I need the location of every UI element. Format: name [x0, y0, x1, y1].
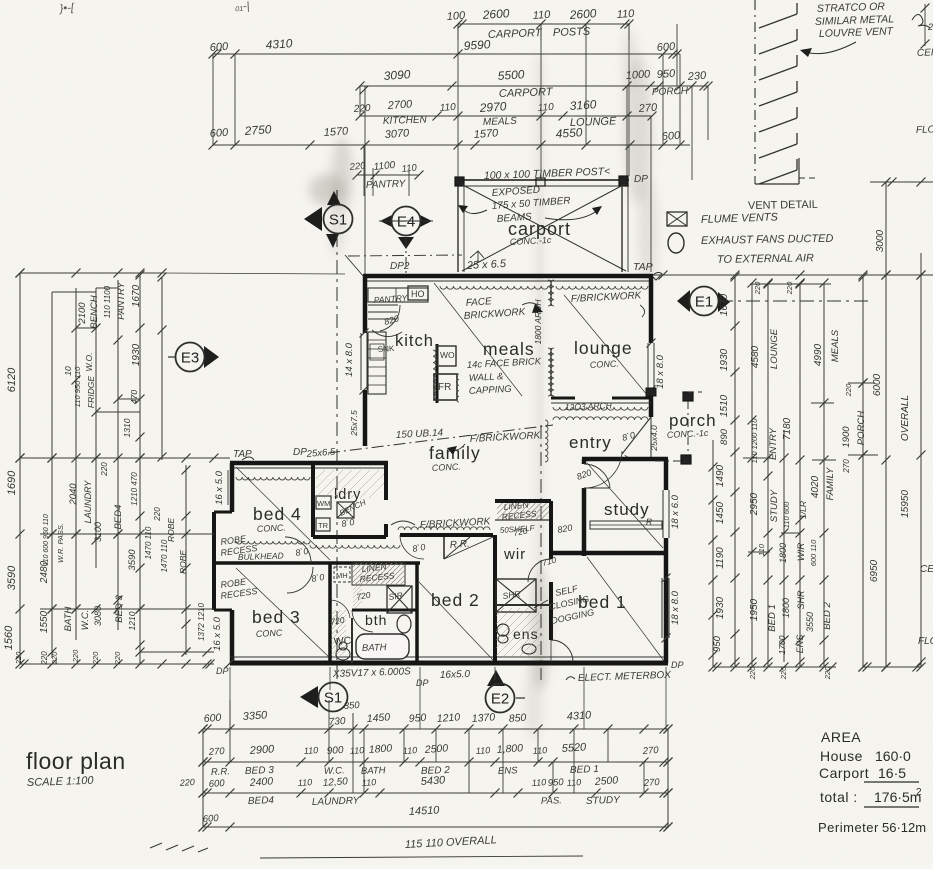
svg-text:950: 950	[547, 777, 564, 789]
wall ldry left	[311, 463, 315, 537]
svg-text:950: 950	[408, 712, 426, 725]
entry door opening right	[650, 417, 652, 459]
svg-text:16x5.0: 16x5.0	[440, 669, 471, 681]
svg-text:2400: 2400	[248, 775, 273, 789]
svg-text:25x4.0: 25x4.0	[649, 425, 659, 452]
wall bed4 ldry top	[230, 461, 388, 466]
svg-text:220: 220	[71, 649, 80, 663]
svg-text:STRATCO OR: STRATCO OR	[817, 1, 886, 15]
svg-text:850: 850	[508, 712, 526, 725]
ldry hatch	[316, 470, 384, 498]
top dim row2 line	[213, 53, 680, 55]
svg-text:family: family	[429, 443, 481, 463]
svg-text:4990: 4990	[813, 343, 824, 366]
top dim row5 line	[213, 144, 690, 146]
wall lounge porch corner	[649, 390, 654, 417]
linen recess bath side	[352, 563, 405, 585]
svg-text:1670: 1670	[131, 284, 142, 307]
svg-text:110: 110	[349, 745, 364, 756]
top dim row3 line	[360, 85, 708, 87]
carport rail right	[621, 186, 623, 272]
svg-text:2750: 2750	[243, 122, 272, 138]
svg-text:7180: 7180	[782, 417, 793, 440]
svg-text:14510: 14510	[409, 804, 441, 818]
wall family bed2 top	[400, 533, 493, 537]
svg-text:ENS: ENS	[795, 635, 805, 654]
right dim verticals	[712, 440, 714, 667]
svg-text:1900: 1900	[841, 426, 852, 448]
svg-text:FAMILY: FAMILY	[825, 467, 836, 500]
svg-text:S1: S1	[329, 212, 347, 229]
svg-text:1310: 1310	[122, 418, 132, 437]
right dim crossbars	[848, 382, 875, 384]
svg-text:4310: 4310	[265, 36, 293, 52]
shr shower bath	[387, 586, 412, 613]
svg-text:110: 110	[532, 745, 547, 756]
right dim top line	[653, 274, 933, 276]
svg-text:3090: 3090	[383, 67, 411, 83]
svg-text:PAS.: PAS.	[541, 795, 562, 807]
svg-text:2600: 2600	[481, 6, 510, 22]
svg-text:bed 2: bed 2	[431, 590, 480, 610]
kitchen top bench	[368, 288, 428, 302]
svg-text:2: 2	[927, 22, 933, 32]
svg-text:CARPORT: CARPORT	[499, 86, 554, 100]
section marker S1 bottom	[300, 686, 318, 708]
svg-text:DP: DP	[293, 447, 307, 458]
svg-text:PANTRY: PANTRY	[116, 282, 127, 320]
svg-text:HO: HO	[411, 289, 425, 299]
svg-text:950: 950	[712, 635, 723, 652]
svg-text:220: 220	[100, 462, 109, 477]
bottom dim line1	[203, 728, 668, 730]
section line E2	[540, 425, 542, 680]
ens toilet	[497, 624, 509, 636]
svg-text:18 x 8.0: 18 x 8.0	[670, 590, 681, 625]
svg-text:TO EXTERNAL AIR: TO EXTERNAL AIR	[717, 252, 814, 266]
kitchen hp box	[408, 286, 428, 300]
svg-text:2900: 2900	[248, 743, 275, 757]
wall study bottom bed1 top	[549, 551, 668, 556]
svg-text:1560: 1560	[3, 625, 15, 650]
svg-text:}•-[: }•-[	[58, 2, 75, 15]
scribble top right	[912, 14, 930, 28]
wir shelf line	[495, 519, 551, 521]
elevation marker E1	[677, 290, 690, 312]
svg-text:AREA: AREA	[821, 729, 861, 745]
wall bulkhead bed4 bed3	[214, 561, 420, 565]
svg-text:6120: 6120	[6, 367, 18, 392]
svg-text:6000: 6000	[872, 373, 883, 396]
svg-text:270: 270	[642, 777, 660, 789]
svg-text:LOUNGE: LOUNGE	[769, 328, 780, 369]
svg-text:110: 110	[475, 745, 490, 756]
wall bath top	[352, 609, 417, 612]
vent detail bottom line	[755, 183, 799, 185]
svg-text:1372 1210: 1372 1210	[197, 603, 206, 641]
kitchen sink	[370, 344, 384, 360]
lounge diagonal	[564, 295, 648, 396]
svg-text:3160: 3160	[569, 97, 597, 113]
svg-text:220: 220	[748, 666, 757, 680]
svg-text:110: 110	[361, 777, 376, 788]
study desk	[590, 521, 662, 529]
svg-text:100: 100	[446, 10, 466, 23]
svg-text:SCALE 1:100: SCALE 1:100	[27, 775, 95, 789]
svg-text:SNK: SNK	[378, 344, 396, 354]
wall bed3 left lower	[230, 610, 235, 665]
svg-text:220: 220	[779, 666, 788, 680]
svg-text:25 x 6.5: 25 x 6.5	[466, 258, 508, 272]
svg-text:DP: DP	[416, 678, 429, 688]
svg-text:5520: 5520	[561, 741, 587, 755]
svg-text:4580: 4580	[750, 345, 761, 368]
bed2 diagonal	[419, 582, 493, 660]
svg-text:FR: FR	[438, 382, 451, 393]
svg-text:1100: 1100	[373, 160, 396, 173]
svg-text:2: 2	[916, 787, 922, 798]
svg-text:1370: 1370	[471, 711, 495, 725]
svg-text:2700: 2700	[386, 98, 413, 112]
svg-text:3000: 3000	[875, 229, 886, 252]
scallop entry top	[553, 417, 648, 420]
svg-text:220: 220	[14, 651, 23, 665]
bottom dim line2	[203, 761, 668, 763]
svg-text:BED 1: BED 1	[767, 604, 778, 631]
svg-text:1210: 1210	[127, 611, 137, 630]
svg-text:600 110: 600 110	[809, 539, 818, 566]
carport post mid	[536, 178, 545, 186]
kitchen peninsula wall	[436, 344, 439, 403]
svg-text:220: 220	[352, 103, 371, 115]
bed4 diagonal	[236, 467, 330, 560]
svg-text:600: 600	[209, 127, 229, 140]
svg-text:STUDY: STUDY	[586, 795, 622, 807]
wc toilet	[336, 648, 350, 660]
svg-text:Perimeter: Perimeter	[818, 820, 879, 835]
wall meals lounge divider lower	[548, 348, 551, 396]
svg-text:110: 110	[566, 777, 581, 788]
kitchen fr box	[434, 374, 457, 400]
entry arc 860	[584, 451, 622, 488]
wall study right	[664, 459, 669, 490]
exhaust fan symbol	[668, 233, 684, 253]
svg-text:FACE: FACE	[465, 296, 492, 309]
svg-text:730: 730	[328, 716, 346, 728]
svg-text:9590: 9590	[463, 37, 491, 53]
svg-text:1670: 1670	[719, 293, 730, 316]
hall wall hatch	[331, 610, 346, 658]
svg-text:270: 270	[207, 746, 225, 758]
linen recess wir hatch	[497, 503, 549, 519]
svg-text:porch: porch	[669, 411, 717, 430]
svg-text:270: 270	[641, 745, 659, 757]
scallop ldry bottom	[310, 545, 400, 548]
svg-text:4020: 4020	[810, 475, 821, 498]
svg-text:SIR: SIR	[388, 590, 403, 602]
svg-text:2040: 2040	[68, 483, 79, 506]
bottom drop lines	[229, 667, 231, 729]
svg-text:220: 220	[40, 651, 49, 666]
svg-text:MEALS: MEALS	[830, 329, 841, 362]
svg-text:ENTRY: ENTRY	[768, 427, 779, 460]
svg-text:470: 470	[129, 390, 139, 404]
wall bath bed2 divider	[415, 563, 419, 663]
svg-text:BED4: BED4	[113, 505, 124, 530]
svg-text:entry: entry	[569, 433, 612, 452]
svg-text:W.R. PASS.: W.R. PASS.	[56, 523, 65, 563]
svg-text:110: 110	[616, 8, 635, 21]
ldry tr box	[316, 518, 330, 531]
arrows exposed beams	[462, 208, 487, 214]
svg-text:1450: 1450	[366, 711, 390, 725]
svg-text:MH: MH	[336, 571, 348, 580]
bottom dim verticals	[202, 729, 204, 827]
svg-text:160·0: 160·0	[875, 748, 911, 764]
svg-text:220: 220	[844, 383, 853, 397]
svg-text:lounge: lounge	[574, 338, 633, 358]
svg-text:110 1200 110: 110 1200 110	[750, 418, 759, 464]
carport cross diagonals	[461, 184, 626, 271]
svg-text:3100: 3100	[93, 522, 103, 542]
svg-text:LAUNDRY: LAUNDRY	[83, 480, 93, 524]
svg-text:220: 220	[178, 777, 195, 788]
wall kitchen left upper	[363, 276, 368, 333]
vent detail right dim marks	[924, 4, 926, 46]
shr wir shower	[496, 579, 536, 612]
arrow stratco	[806, 42, 856, 54]
section marker E2	[487, 670, 505, 686]
svg-text:110 600: 110 600	[782, 501, 791, 528]
wall ldry right	[384, 463, 388, 500]
svg-text:CAPPING: CAPPING	[469, 384, 512, 397]
svg-text:110: 110	[757, 543, 766, 556]
bed3 diagonal	[236, 568, 330, 658]
svg-text:E3: E3	[181, 350, 199, 367]
carport post right	[619, 176, 628, 186]
svg-text:FLO: FLO	[918, 636, 933, 647]
bed1 diagonal	[587, 557, 664, 661]
svg-text:VENT DETAIL: VENT DETAIL	[748, 199, 818, 212]
scallop lounge bottom	[553, 407, 648, 410]
svg-text:1570: 1570	[473, 127, 499, 141]
elevation marker E3	[204, 346, 219, 368]
scallop bed4 top inner	[236, 541, 310, 544]
svg-text:FRIDGE: FRIDGE	[86, 376, 96, 408]
robe door diagonals bed2	[444, 537, 493, 559]
svg-text:E2: E2	[491, 691, 509, 708]
vent detail dashed boundary	[754, 0, 756, 184]
smudge above S1	[309, 174, 345, 206]
svg-text:110 950 110: 110 950 110	[73, 366, 82, 407]
svg-text:1190: 1190	[715, 547, 726, 569]
svg-text:25x7.5: 25x7.5	[349, 410, 359, 437]
svg-text:CARPORT: CARPORT	[488, 27, 543, 41]
svg-text:3590: 3590	[6, 565, 18, 590]
svg-text:CE: CE	[920, 564, 933, 575]
porch post bottom	[681, 455, 691, 464]
ldry wm box	[316, 496, 331, 509]
wall meals lounge divider upper	[548, 280, 551, 306]
svg-text:4310: 4310	[566, 709, 592, 723]
svg-text:1950: 1950	[749, 598, 760, 621]
svg-text:56·12m: 56·12m	[882, 820, 926, 835]
bed1 door arc	[551, 640, 573, 662]
carport top rail	[457, 179, 629, 181]
bed4 door arc 820	[285, 537, 311, 563]
svg-text:110 600 950 110: 110 600 950 110	[43, 514, 50, 566]
svg-text:220: 220	[153, 507, 162, 522]
svg-text:DP2: DP2	[390, 261, 410, 272]
wall ens wir bottom	[495, 604, 551, 606]
beam line 150ub14	[328, 425, 553, 453]
svg-text:1570: 1570	[323, 125, 349, 139]
svg-text:total :: total :	[820, 789, 858, 805]
svg-text:1,800: 1,800	[496, 742, 523, 756]
svg-text:₀₁-|: ₀₁-|	[235, 0, 250, 13]
svg-text:15950: 15950	[900, 490, 911, 518]
svg-text:1930: 1930	[715, 596, 726, 619]
svg-text:5500: 5500	[497, 67, 525, 83]
svg-text:W.C.: W.C.	[324, 765, 345, 777]
wall bed2 wir divider	[493, 535, 497, 663]
svg-text:TAP: TAP	[633, 261, 653, 273]
top dim row4 line	[360, 115, 652, 117]
svg-text:270: 270	[842, 459, 851, 474]
svg-text:6950: 6950	[869, 559, 880, 582]
section line E1	[719, 300, 868, 302]
svg-text:kitch: kitch	[395, 332, 434, 350]
bath tub	[356, 634, 409, 659]
svg-text:W.C.: W.C.	[80, 610, 91, 631]
scallop family south	[398, 527, 490, 530]
svg-text:TR: TR	[318, 521, 329, 530]
svg-text:1/LR: 1/LR	[798, 501, 808, 519]
carport rail left	[457, 186, 459, 272]
svg-text:18 x 8.0: 18 x 8.0	[655, 354, 666, 389]
svg-text:2600: 2600	[568, 6, 597, 22]
svg-text:PANTRY: PANTRY	[366, 179, 407, 191]
svg-text:DP: DP	[216, 666, 229, 676]
svg-text:110: 110	[402, 745, 417, 756]
flume vent symbol	[667, 212, 687, 226]
svg-text:BED 3: BED 3	[114, 595, 125, 623]
svg-text:230: 230	[686, 70, 707, 83]
svg-text:CONC.: CONC.	[590, 358, 619, 370]
svg-text:4550: 4550	[555, 125, 583, 141]
carport post left	[455, 177, 464, 186]
wall ldry bottom	[313, 535, 386, 539]
svg-text:ENS: ENS	[498, 765, 519, 777]
svg-text:W.O.: W.O.	[84, 352, 94, 371]
svg-text:S1: S1	[324, 690, 342, 707]
paper smudge near E2	[530, 570, 552, 690]
svg-text:3070: 3070	[384, 127, 410, 141]
svg-text:220: 220	[785, 281, 794, 295]
svg-text:E4: E4	[397, 214, 415, 231]
svg-text:PORCH: PORCH	[856, 411, 867, 445]
svg-text:WC: WC	[333, 635, 352, 648]
scallop meals top inner	[440, 286, 548, 289]
svg-text:110: 110	[531, 777, 546, 788]
svg-text:DP: DP	[671, 660, 684, 670]
svg-text:14 x 8.0: 14 x 8.0	[344, 342, 355, 377]
svg-text:study: study	[604, 500, 650, 519]
kitchen bench left	[368, 332, 386, 394]
scallop entry west	[545, 420, 548, 462]
porch post top	[683, 392, 693, 401]
svg-text:KITCHEN: KITCHEN	[383, 114, 428, 127]
top dim drop lines	[212, 54, 214, 145]
wall top exterior	[363, 274, 653, 279]
ens basin	[522, 644, 536, 654]
svg-text:2500: 2500	[423, 742, 448, 756]
porch boundary dashes	[687, 401, 689, 455]
svg-text:TAP: TAP	[233, 449, 252, 460]
svg-text:1450: 1450	[715, 501, 726, 524]
ldry tub	[337, 502, 354, 518]
svg-text:16·5: 16·5	[878, 765, 906, 781]
window study right 18x6.0	[662, 490, 664, 538]
ens smudge box	[496, 608, 540, 658]
svg-text:2970: 2970	[478, 99, 507, 115]
study diagonal	[587, 463, 663, 548]
svg-text:3350: 3350	[242, 709, 268, 723]
bottom dim line4 overall	[203, 826, 668, 828]
leader dash 25x6.5	[348, 255, 462, 256]
wall lounge bottom	[551, 397, 575, 400]
svg-text:1700: 1700	[777, 635, 787, 654]
section line E4	[405, 237, 407, 274]
svg-text:wir: wir	[503, 546, 526, 563]
paper smudge streak right of carport	[624, 55, 652, 205]
study door arc 820	[584, 464, 610, 488]
pantry shelves corner	[368, 305, 398, 319]
extra double ticks	[203, 725, 212, 734]
svg-text:LAUNDRY: LAUNDRY	[312, 795, 361, 808]
svg-text:110: 110	[537, 102, 554, 114]
svg-text:FLOOR: FLOOR	[916, 124, 933, 136]
svg-text:BATH: BATH	[63, 607, 74, 632]
section marker S1 top	[336, 190, 338, 203]
svg-text:18 x 6.0: 18 x 6.0	[670, 494, 681, 529]
wir door arc	[528, 559, 551, 582]
svg-text:1210: 1210	[436, 711, 460, 725]
mh access dashed	[334, 567, 350, 582]
svg-text:WM: WM	[317, 499, 330, 508]
svg-text:OVERALL: OVERALL	[900, 395, 911, 441]
svg-text:10: 10	[63, 366, 73, 376]
vent detail louvre slats	[796, 3, 798, 14]
window lounge right 18x8.0	[647, 343, 649, 390]
svg-text:3080: 3080	[93, 606, 103, 626]
svg-text:ROBE: ROBE	[178, 550, 188, 574]
svg-text:1470 110: 1470 110	[160, 539, 169, 572]
wall study left	[582, 459, 587, 464]
svg-text:1930: 1930	[719, 348, 730, 371]
svg-text:110: 110	[303, 745, 318, 756]
svg-text:110: 110	[439, 102, 456, 114]
svg-text:1800: 1800	[781, 598, 791, 618]
svg-text:bed 3: bed 3	[252, 607, 301, 627]
svg-text:WIR: WIR	[796, 543, 807, 562]
scallop lounge top inner	[556, 286, 648, 289]
svg-text:1210 470: 1210 470	[130, 472, 139, 506]
svg-text:BED4: BED4	[248, 795, 275, 807]
wall hall west	[328, 563, 332, 665]
svg-text:1470 110: 1470 110	[144, 526, 153, 559]
svg-text:176·5m: 176·5m	[874, 789, 921, 805]
